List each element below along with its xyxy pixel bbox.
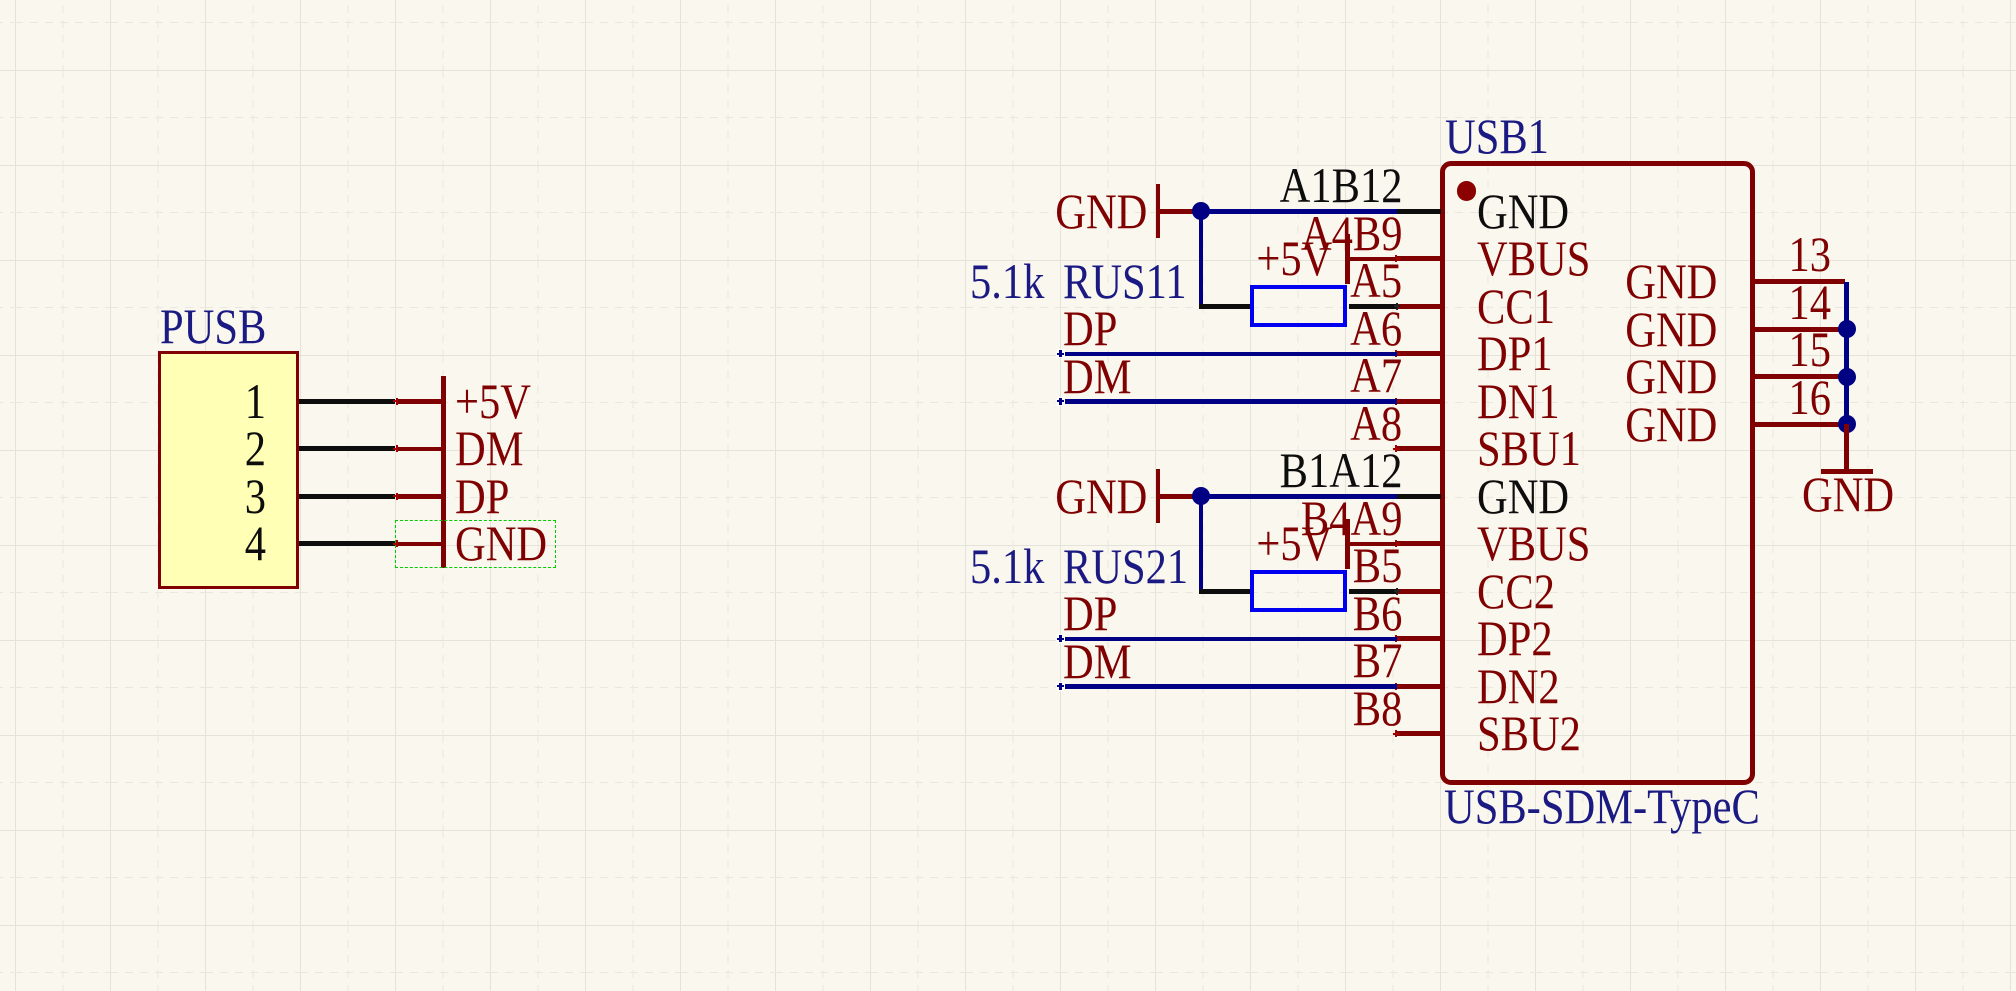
wire GND net horizontal (group 2) — [1199, 494, 1397, 499]
selection highlight around GND port (green dashed) — [395, 520, 556, 568]
power port +5V stem wire — [398, 399, 441, 404]
pin B8 designator label — [1352, 683, 1402, 733]
pin 16 number label — [1789, 372, 1832, 422]
wire DM net (group 1) — [1060, 399, 1397, 404]
pin 1 hot-end marker — [393, 400, 400, 402]
junction dot at pin 16 — [1838, 415, 1856, 433]
pin 15 name label (GND) — [1625, 351, 1717, 401]
pin A5 (CC1) line — [1396, 304, 1441, 309]
pin B1A12 designator label — [1279, 445, 1402, 495]
pin 13 name label (GND) — [1625, 256, 1717, 306]
pin A7 designator label — [1350, 350, 1402, 400]
connector PUSB pin 2 number — [244, 423, 265, 473]
pin B7 (DN2) line — [1396, 684, 1441, 689]
pin A6 designator label — [1350, 303, 1402, 353]
pin 14 name label (GND) — [1625, 304, 1717, 354]
pin 3 hot-end marker — [393, 495, 400, 497]
pin A8 designator label — [1350, 398, 1402, 448]
pin B7 name label — [1477, 661, 1560, 711]
pin A6 hot-end marker — [1393, 353, 1400, 355]
pin B6 designator label — [1352, 588, 1402, 638]
pin B4A9 (VBUS) line — [1396, 541, 1441, 546]
pin 16 (GND right) line — [1752, 422, 1845, 427]
power port GND (group 1) label — [1055, 186, 1147, 236]
resistor RUS11 lead hot-end marker — [1394, 305, 1401, 307]
pin 14 (GND right) line — [1752, 327, 1845, 332]
pin B6 hot-end marker — [1393, 638, 1400, 640]
resistor RUS21 value label 5.1k — [970, 541, 1044, 591]
pin A6 name label — [1477, 328, 1553, 378]
wire DP net (group 1) — [1060, 352, 1397, 357]
pin B4A9 hot-end marker — [1393, 543, 1400, 545]
power port +5V (group 1) bar — [1345, 234, 1350, 284]
pin A8 hot-end marker — [1393, 448, 1400, 450]
wire GND net vertical to resistor RUS11 (group 1) — [1199, 211, 1204, 306]
power port bar (shared vertical bar for +5V/DM/DP/GND ports) — [441, 376, 446, 568]
wire GND net horizontal (group 1) — [1199, 209, 1397, 214]
connector PUSB pin 3 line — [299, 494, 395, 499]
wire DP end marker (group 2) — [1056, 634, 1065, 643]
pin 13 number label — [1789, 229, 1832, 279]
connector PUSB pin 1 line — [299, 399, 395, 404]
pin B6 name label — [1477, 613, 1553, 663]
power port +5V (group 2) label — [1256, 518, 1332, 568]
pin B7 designator label — [1352, 635, 1402, 685]
resistor RUS11 right lead — [1349, 304, 1397, 309]
power port GND (group 2) bar — [1156, 469, 1161, 523]
net label DM (group 1) — [1063, 351, 1131, 401]
power port DM label — [455, 423, 523, 473]
power port GND (group 1) bar — [1156, 184, 1161, 238]
pin B1A12 (GND) line — [1396, 494, 1441, 499]
pin A7 name label — [1477, 376, 1560, 426]
pin A4B9 name label — [1477, 233, 1590, 283]
wire DM end marker (group 2) — [1056, 682, 1065, 691]
power port GND label — [455, 518, 547, 568]
power port DP label — [455, 471, 509, 521]
resistor RUS21 body — [1250, 570, 1347, 612]
power port GND (right) stem — [1844, 424, 1849, 471]
power port +5V (group 1) label — [1256, 233, 1332, 283]
pin A1B12 designator label — [1279, 160, 1402, 210]
pin A4B9 hot-end marker — [1393, 258, 1400, 260]
pin A6 (DP1) line — [1396, 351, 1441, 356]
resistor RUS21 right lead — [1349, 589, 1397, 594]
component USB1 body outline — [1440, 161, 1755, 785]
pin A7 hot-end marker — [1393, 400, 1400, 402]
pin 15 number label — [1789, 324, 1832, 374]
pin A5 designator label — [1350, 255, 1402, 305]
pin 2 hot-end marker — [393, 448, 400, 450]
resistor RUS11 value label 5.1k — [970, 256, 1044, 306]
pin 15 (GND right) line — [1752, 374, 1845, 379]
pin A4B9 (VBUS) line — [1396, 256, 1441, 261]
connector PUSB pin 1 number — [244, 376, 265, 426]
net label DP (group 2) — [1063, 588, 1117, 638]
connector PUSB pin 2 line — [299, 446, 395, 451]
wire GND net vertical to resistor RUS21 (group 2) — [1199, 496, 1204, 591]
junction dot GND net (group 1) — [1192, 202, 1210, 220]
pin A1B12 name label — [1477, 186, 1569, 236]
connector PUSB designator text — [160, 301, 266, 351]
junction dot at pin 14 — [1838, 320, 1856, 338]
junction dot GND net (group 2) — [1192, 487, 1210, 505]
pin B5 (CC2) line — [1396, 589, 1441, 594]
pin B1A12 name label — [1477, 471, 1569, 521]
pin B5 designator label — [1352, 540, 1402, 590]
power port DP stem wire — [398, 494, 441, 499]
pin A4B9 designator label — [1300, 208, 1402, 258]
net label DM (group 2) — [1063, 636, 1131, 686]
pin B6 (DP2) line — [1396, 636, 1441, 641]
power port GND (group 1) stem — [1160, 209, 1201, 214]
wire DP end marker (group 1) — [1056, 349, 1065, 358]
resistor RUS11 left lead — [1199, 304, 1251, 309]
pin B8 hot-end marker — [1393, 733, 1400, 735]
junction dot at pin 15 — [1838, 368, 1856, 386]
resistor RUS11 designator label — [1063, 256, 1187, 306]
pin 13 (GND right) line — [1752, 279, 1845, 284]
pin A8 (SBU1) line — [1396, 446, 1441, 451]
power port GND stem wire — [398, 542, 441, 547]
pin 14 number label — [1789, 277, 1832, 327]
component USB1 comment text — [1444, 781, 1760, 831]
resistor RUS21 designator label — [1063, 541, 1188, 591]
pin 16 name label (GND) — [1625, 399, 1717, 449]
power port GND (group 2) label — [1055, 471, 1147, 521]
resistor RUS21 lead hot-end marker — [1394, 590, 1401, 592]
pin B8 (SBU2) line — [1396, 731, 1441, 736]
power port +5V (group 2) stem — [1347, 542, 1396, 547]
pin B4A9 designator label — [1300, 493, 1402, 543]
wire GND chain vertical (pins 13-16) — [1844, 282, 1849, 425]
wire DM end marker (group 1) — [1056, 397, 1065, 406]
resistor RUS11 body — [1250, 285, 1347, 327]
connector PUSB body — [158, 351, 299, 589]
pin B5 name label — [1477, 566, 1555, 616]
component U1 (USB1) designator text — [1445, 111, 1549, 161]
wire DM net (group 2) — [1060, 684, 1397, 689]
power port +5V (group 1) stem — [1347, 257, 1396, 262]
power port +5V label — [455, 376, 531, 426]
connector PUSB pin 4 line — [299, 541, 395, 546]
power port GND (group 2) stem — [1160, 494, 1201, 499]
pin A7 (DN1) line — [1396, 399, 1441, 404]
connector PUSB pin 3 number — [244, 471, 265, 521]
power port GND (right) label — [1802, 469, 1894, 519]
pin B7 hot-end marker — [1393, 685, 1400, 687]
ERC marker dot inside USB1 — [1457, 181, 1477, 201]
pin B4A9 name label — [1477, 518, 1590, 568]
wire DP net (group 2) — [1060, 637, 1397, 642]
power port DM stem wire — [398, 447, 441, 452]
resistor RUS21 left lead — [1199, 589, 1251, 594]
connector PUSB pin 4 number — [244, 518, 265, 568]
pin B8 name label — [1477, 708, 1581, 758]
pin A5 name label — [1477, 281, 1555, 331]
pin A8 name label — [1477, 423, 1581, 473]
pin A1B12 (GND) line — [1396, 209, 1441, 214]
pin 4 hot-end marker — [393, 543, 400, 545]
net label DP (group 1) — [1063, 303, 1117, 353]
power port +5V (group 2) bar — [1345, 519, 1350, 569]
power port GND (right) bar — [1821, 469, 1874, 474]
